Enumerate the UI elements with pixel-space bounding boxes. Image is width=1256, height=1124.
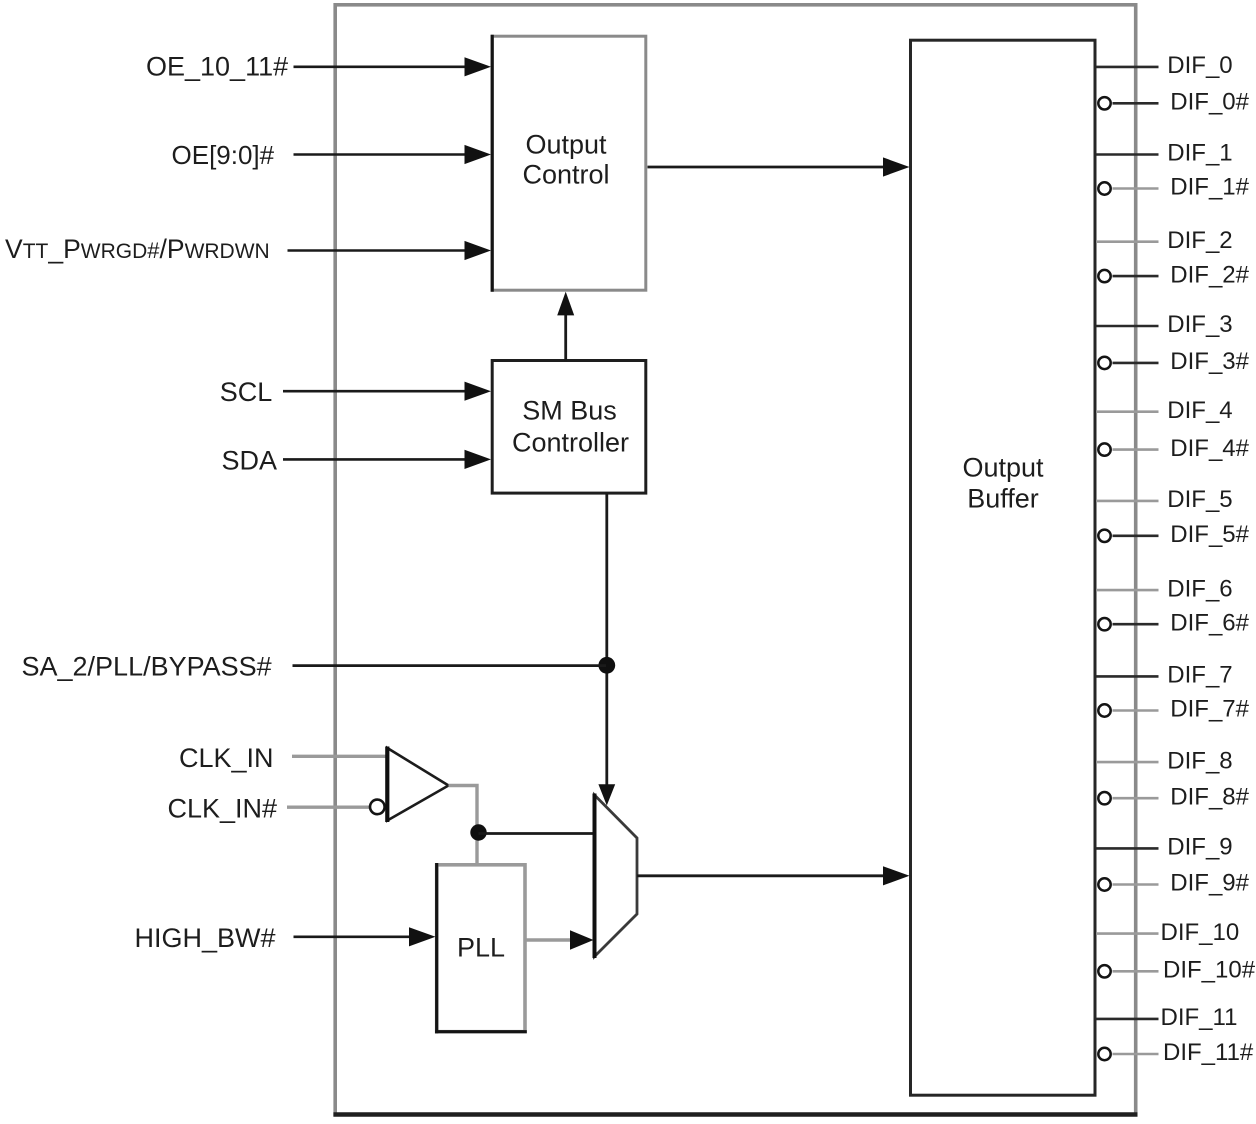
svg-text:DIF_8#: DIF_8# [1170, 783, 1249, 810]
pin DIF_10# (inverted, bubble) [1098, 957, 1255, 984]
pin DIF_4 [1096, 397, 1233, 424]
SM bus controller block U-SMB [492, 361, 646, 494]
svg-text:DIF_3: DIF_3 [1167, 311, 1232, 338]
wire OE_10_11# to output control [294, 57, 492, 76]
pin DIF_8# (inverted, bubble) [1098, 783, 1249, 810]
wire output control to output buffer [648, 157, 910, 176]
svg-text:Control: Control [522, 160, 609, 190]
wire HIGH_BW# to PLL [294, 927, 436, 946]
pin DIF_6 [1096, 575, 1233, 602]
pin DIF_1 [1096, 140, 1233, 167]
svg-text:DIF_4: DIF_4 [1167, 397, 1232, 424]
wire SM bus controller down to mux select [598, 493, 615, 805]
node junction CLK at buffer/PLL split [470, 824, 486, 840]
svg-text:DIF_2#: DIF_2# [1170, 261, 1249, 288]
pin DIF_9# (inverted, bubble) [1098, 870, 1249, 897]
svg-text:DIF_5: DIF_5 [1167, 486, 1232, 513]
pin DIF_2 [1096, 227, 1233, 254]
pin DIF_2# (inverted, bubble) [1098, 261, 1249, 288]
pin DIF_5 [1096, 486, 1233, 513]
svg-text:Output: Output [525, 130, 607, 160]
svg-text:DIF_6: DIF_6 [1167, 575, 1232, 602]
pin DIF_7 [1096, 662, 1233, 689]
svg-text:SCL: SCL [220, 377, 273, 407]
svg-text:DIF_4#: DIF_4# [1170, 435, 1249, 462]
svg-text:DIF_0: DIF_0 [1167, 52, 1232, 79]
pin DIF_11# (inverted, bubble) [1098, 1039, 1254, 1066]
svg-text:CLK_IN#: CLK_IN# [168, 794, 278, 824]
wire mux output to output buffer [637, 866, 910, 885]
pin DIF_8 [1096, 747, 1233, 774]
svg-text:SA_2/PLL/BYPASS#: SA_2/PLL/BYPASS# [22, 652, 272, 682]
svg-text:DIF_10: DIF_10 [1161, 919, 1240, 946]
wire SM bus controller up to output control [557, 292, 574, 361]
pin DIF_7# (inverted, bubble) [1098, 696, 1249, 723]
svg-text:DIF_3#: DIF_3# [1170, 348, 1249, 375]
output buffer block U-OB [911, 40, 1096, 1095]
svg-text:DIF_5#: DIF_5# [1170, 521, 1249, 548]
wire buffer apex to junction (right then down) [449, 786, 478, 865]
svg-text:Buffer: Buffer [967, 484, 1039, 514]
svg-text:DIF_0#: DIF_0# [1170, 89, 1249, 116]
wire PLL output to mux input 1 [526, 930, 594, 950]
svg-text:DIF_11: DIF_11 [1161, 1004, 1238, 1031]
wire SA_2/PLL/BYPASS# to junction [293, 664, 607, 667]
svg-text:DIF_1: DIF_1 [1167, 140, 1232, 167]
svg-text:DIF_9: DIF_9 [1167, 834, 1232, 861]
pin DIF_3# (inverted, bubble) [1098, 348, 1249, 375]
input buffer triangle U-CLKBUF [387, 747, 448, 823]
svg-text:HIGH_BW#: HIGH_BW# [135, 923, 276, 953]
pin DIF_11 [1096, 1004, 1237, 1031]
wire SDA to SM bus controller [283, 450, 491, 469]
svg-text:DIF_10#: DIF_10# [1163, 957, 1256, 984]
output control block U-OC [492, 35, 646, 292]
mux U-MUX [595, 794, 638, 959]
svg-text:DIF_1#: DIF_1# [1170, 174, 1249, 201]
svg-text:DIF_7#: DIF_7# [1170, 696, 1249, 723]
wire VTT_PWRGD#/PWRDWN to output control [288, 241, 492, 260]
pin DIF_4# (inverted, bubble) [1098, 435, 1249, 462]
svg-text:DIF_2: DIF_2 [1167, 227, 1232, 254]
wire junction to mux input 0 [479, 832, 595, 835]
chip outer border [333, 5, 1137, 1115]
svg-text:PLL: PLL [457, 933, 505, 963]
pin DIF_9 [1096, 834, 1233, 861]
wire CLK_IN# to inversion bubble [287, 806, 369, 809]
svg-text:DIF_9#: DIF_9# [1170, 870, 1249, 897]
svg-text:SDA: SDA [222, 445, 278, 475]
wire CLK_IN to input buffer [292, 755, 388, 758]
svg-text:SM Bus: SM Bus [522, 396, 617, 426]
svg-text:DIF_11#: DIF_11# [1163, 1039, 1254, 1066]
pin DIF_6# (inverted, bubble) [1098, 609, 1249, 636]
svg-text:OE[9:0]#: OE[9:0]# [172, 140, 275, 170]
svg-text:DIF_7: DIF_7 [1167, 662, 1232, 689]
pin DIF_10 [1096, 919, 1239, 946]
svg-text:DIF_8: DIF_8 [1167, 747, 1232, 774]
node junction SA_2 on select wire [598, 657, 615, 674]
PLL block U-PLL [435, 863, 527, 1033]
wire OE[9:0]# to output control [294, 145, 492, 164]
wire SCL to SM bus controller [283, 382, 491, 401]
inversion bubble on CLK_IN# input [370, 800, 385, 815]
pin DIF_1# (inverted, bubble) [1098, 174, 1249, 201]
svg-text:DIF_6#: DIF_6# [1170, 609, 1249, 636]
pin DIF_0# (inverted, bubble) [1098, 89, 1249, 116]
pin DIF_3 [1096, 311, 1233, 338]
pin DIF_5# (inverted, bubble) [1098, 521, 1249, 548]
svg-text:Output: Output [962, 453, 1044, 483]
svg-text:CLK_IN: CLK_IN [179, 743, 274, 773]
svg-text:OE_10_11#: OE_10_11# [146, 52, 288, 82]
pin DIF_0 [1096, 52, 1233, 79]
svg-text:Controller: Controller [512, 428, 629, 458]
